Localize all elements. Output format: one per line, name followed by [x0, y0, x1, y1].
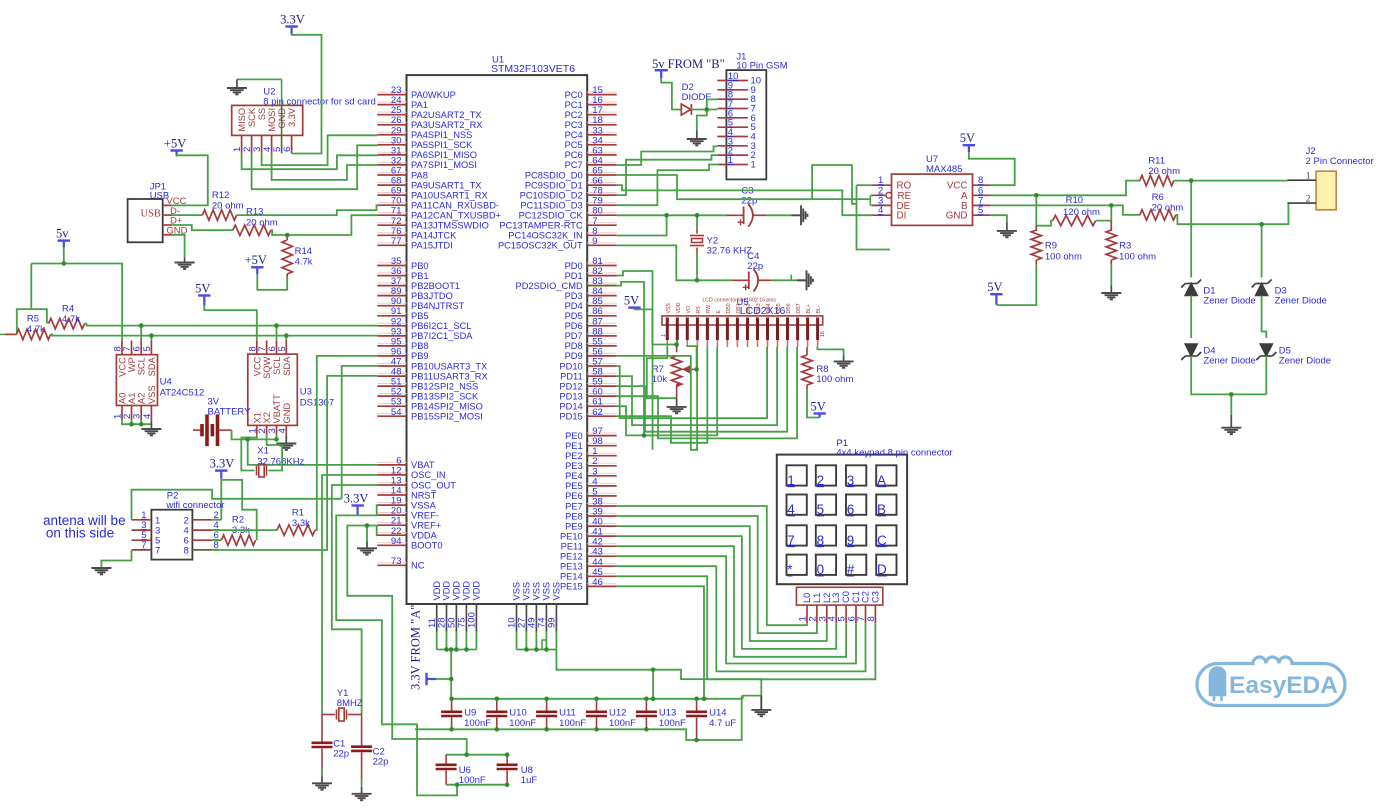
resistor R7 wiper arrow — [684, 366, 697, 373]
svg-text:PB10USART3_TX: PB10USART3_TX — [411, 361, 487, 371]
U5 pin 13 stub thin — [787, 340, 789, 347]
svg-text:VSS: VSS — [666, 303, 672, 314]
svg-text:PB6I2C1_SCL: PB6I2C1_SCL — [411, 321, 471, 331]
capacitor U14 — [686, 712, 707, 716]
J1 pin 2 stub — [717, 154, 748, 156]
resistor R14 top lead — [286, 235, 288, 240]
U4 pin 2 (A1) stub — [131, 406, 133, 421]
power 5V LCD — [628, 308, 640, 310]
svg-text:PA5SPI1_SCK: PA5SPI1_SCK — [411, 140, 473, 150]
U1 pin 29 (PA4SPI1_NSS) stub — [377, 134, 406, 136]
wire VREF- pin20 3.3V line to U6/U8 bottom rail — [336, 515, 457, 795]
wire U3 SCL to SCL line — [276, 326, 278, 341]
wire U2 GND to ground — [237, 78, 282, 80]
U7 pin 3 (DE) stub — [872, 204, 892, 206]
wire U6/U8 bottom rail — [446, 784, 507, 786]
U1 pin 79 (PC11SDIO_D3) stub — [587, 204, 617, 206]
svg-text:PD5: PD5 — [565, 311, 583, 321]
U1 pin 94 (BOOT0) stub — [377, 544, 406, 546]
capacitor C3 right lead — [753, 214, 767, 216]
svg-text:4.7 uF: 4.7 uF — [709, 718, 736, 729]
wire U6/U8 top rail — [446, 754, 507, 756]
wire R9 bottom to 5V — [996, 265, 1036, 306]
svg-text:PE7: PE7 — [565, 501, 583, 511]
wire to U7 RO — [857, 184, 872, 186]
diode D2 symbol — [681, 104, 691, 115]
wire VREF+ line to ground — [366, 526, 368, 542]
ground R3 bars — [1101, 293, 1121, 299]
svg-text:100nF: 100nF — [459, 775, 486, 786]
svg-text:PE11: PE11 — [561, 542, 583, 552]
capacitor C1 leads — [321, 715, 323, 743]
keypad P1 key A — [876, 465, 896, 485]
ground U2 bars — [227, 88, 247, 94]
J1 pin 4 stub — [717, 136, 748, 138]
connector J1 body — [726, 70, 766, 179]
svg-text:PD13: PD13 — [559, 391, 582, 401]
JP1 pin GND stub — [163, 234, 172, 236]
U5 pin 6 stub thin — [716, 340, 718, 347]
wire D5 to bottom rail — [1265, 356, 1267, 394]
wire 3.3V to U2 pin6 — [292, 34, 322, 154]
capacitor U13 bottom lead — [645, 718, 647, 730]
svg-text:VDD: VDD — [462, 581, 472, 601]
svg-text:SCL: SCL — [137, 357, 147, 375]
wire R1 to PB9 pin96 — [315, 356, 377, 530]
wire C3 row down to Y2 — [696, 215, 698, 228]
U1 pin 76 (PA14JTCK) stub — [377, 234, 406, 236]
svg-text:DB2: DB2 — [746, 303, 752, 313]
U1 pin 97 (PE0) stub — [587, 435, 617, 437]
U7 pin 1 (RO) stub — [872, 184, 892, 186]
U1 pin 5 (PE6) stub — [587, 495, 617, 497]
keypad P1 key # — [846, 555, 866, 575]
ground R7 stem — [676, 398, 678, 407]
capacitor U8 — [497, 765, 518, 769]
svg-text:PC13TAMPER-RTC: PC13TAMPER-RTC — [499, 221, 583, 231]
U1 pin 18 (PC3) stub — [587, 124, 617, 126]
svg-text:6: 6 — [282, 147, 293, 152]
wire junction dots — [62, 107, 1264, 787]
U7 pin 2 (RE) stub — [872, 194, 892, 196]
U1 pin 96 (PB9) stub — [377, 355, 406, 357]
U1 pin 70 (PA11CAN_RXUSBD-) stub — [377, 204, 406, 206]
svg-text:7: 7 — [787, 533, 795, 548]
wire U4 A1 join — [131, 420, 133, 424]
U3 pin 6 (SCL) stub — [276, 340, 278, 354]
U1 VSS pin 27 stub — [525, 604, 527, 632]
svg-text:PD15: PD15 — [559, 412, 582, 422]
wire VSS pin drop — [525, 632, 527, 650]
P2 pin 2 stub — [192, 519, 211, 521]
svg-text:A0: A0 — [118, 393, 128, 404]
wire 3.3V FROM A to VDD net — [436, 678, 451, 680]
svg-text:PC5: PC5 — [565, 140, 583, 150]
wire U2 MISO to PA6 pin31 — [242, 153, 378, 169]
power 5V R8 — [813, 414, 825, 418]
U1 pin 93 (PB7I2C1_SDA) stub — [377, 335, 406, 337]
wire PC8 pin65 to U7 RE/DE node — [617, 175, 871, 199]
U5 pin 6 (E) stub — [716, 318, 719, 341]
U5 pin 13 (DB6) stub — [786, 318, 789, 341]
wire VDD pin drop — [475, 632, 477, 650]
wire U2 MOSI to PA7 pin32 — [272, 153, 378, 180]
U1 pin 19 (VSSA) stub — [377, 504, 406, 506]
U1 VDD pin 100 stub — [475, 604, 477, 632]
wire U2 SCK to PA5 pin30 — [252, 145, 378, 189]
ground zener stem — [1230, 415, 1232, 428]
svg-text:100: 100 — [467, 612, 478, 628]
diode D3 (zener) — [1252, 280, 1272, 296]
svg-text:PE3: PE3 — [565, 461, 583, 471]
wire VDDA pin22 bracket to VREF+ — [376, 526, 379, 536]
U1 pin 47 (PB10USART3_TX) stub — [377, 365, 406, 367]
J1 pin 6 stub — [717, 117, 748, 119]
svg-text:+5V: +5V — [245, 253, 267, 267]
P1 connector pin 7 stub — [865, 605, 867, 623]
svg-text:U11: U11 — [559, 708, 576, 719]
svg-text:PC6: PC6 — [565, 150, 583, 160]
U5 pin 11 (DB4) stub — [766, 318, 769, 341]
svg-text:PE15: PE15 — [560, 582, 583, 592]
wire VDD bus down to cap bus — [450, 650, 452, 699]
svg-text:VSSA: VSSA — [411, 500, 437, 510]
svg-text:VDD: VDD — [676, 302, 682, 313]
resistor R4 — [49, 318, 85, 328]
wire 5v to U4 VCC pin8 — [64, 264, 122, 341]
wire staircase above U7 — [812, 165, 890, 250]
wire 3.3V rail to P2 pin2 — [220, 479, 222, 520]
svg-text:PC10SDIO_D2: PC10SDIO_D2 — [520, 190, 583, 200]
svg-text:C: C — [877, 533, 887, 548]
U1 pin 30 (PA5SPI1_SCK) stub — [377, 144, 406, 146]
J1 pin 5 stub — [717, 126, 748, 128]
resistor R8 top lead — [806, 347, 808, 355]
svg-text:GND: GND — [282, 403, 292, 424]
U5 pin 12 (DB5) stub — [776, 318, 779, 341]
svg-text:16: 16 — [820, 331, 826, 337]
wire OSC_OUT pin13 to Y1 right — [332, 485, 378, 715]
svg-text:1: 1 — [787, 473, 795, 488]
power 3.3V top-left — [285, 27, 297, 34]
U1 pin 17 (PC2) stub — [587, 114, 617, 116]
svg-text:SCL: SCL — [272, 357, 282, 375]
capacitor C4 right lead — [758, 279, 772, 281]
ground D2 stem — [696, 131, 698, 140]
ground R3 stem — [1110, 285, 1112, 293]
svg-text:22p: 22p — [373, 757, 389, 768]
resistor R5 — [17, 329, 51, 339]
svg-text:100nF: 100nF — [659, 718, 686, 729]
U7 pin 2 inversion bubble — [886, 192, 892, 198]
svg-text:PB0: PB0 — [411, 261, 429, 271]
J1 pin 8 stub — [717, 98, 748, 100]
wire RO riser — [856, 185, 858, 204]
svg-text:PD0: PD0 — [565, 261, 583, 271]
svg-text:PC9SDIO_D1: PC9SDIO_D1 — [525, 180, 583, 190]
svg-text:5V: 5V — [987, 280, 1002, 294]
svg-text:A1: A1 — [127, 393, 137, 404]
svg-text:100 ohm: 100 ohm — [1119, 252, 1156, 263]
svg-text:L0: L0 — [802, 593, 812, 603]
keypad P1 key 4 — [787, 495, 807, 515]
svg-text:3.3V: 3.3V — [210, 456, 235, 470]
U1 pin 58 (PD11) stub — [587, 375, 617, 377]
svg-text:4: 4 — [787, 502, 795, 517]
wire JP1 D+ to R13 — [172, 225, 233, 230]
capacitor U6 top lead — [445, 755, 447, 765]
resistor R2 — [222, 535, 256, 545]
svg-text:R1: R1 — [292, 508, 304, 519]
svg-text:22p: 22p — [333, 749, 349, 760]
U5 pin 2 (VDD) stub — [676, 318, 679, 341]
wire 5v to R5 — [17, 264, 32, 335]
U3 pin 5 (SDA) stub — [285, 340, 287, 354]
U1 pin 69 (PA10USART1_RX) stub — [377, 194, 406, 196]
keypad P1 key * — [787, 555, 807, 575]
svg-text:VDDA: VDDA — [411, 531, 438, 541]
U1 pin 35 (PB0) stub — [377, 265, 406, 267]
ground U14 bars — [751, 710, 771, 716]
mcu U1 body — [407, 75, 588, 604]
U1 pin 26 (PA3USART2_RX) stub — [377, 124, 406, 126]
U2 pin 4 (MOSI) stub — [271, 135, 273, 153]
wire P2 pin1 to PB10 riser — [132, 490, 342, 520]
svg-text:U4: U4 — [160, 377, 172, 388]
capacitor U11 — [536, 712, 557, 716]
svg-text:5: 5 — [277, 346, 288, 351]
svg-text:32.76 KHZ: 32.76 KHZ — [707, 246, 753, 257]
U1 pin 38 (PE7) stub — [587, 505, 617, 507]
U4 pin 5 (SDA) stub — [150, 340, 152, 354]
wire Y2 down to C4 row — [696, 253, 698, 281]
svg-text:PD12: PD12 — [559, 381, 582, 391]
wire VSS pin drop — [555, 632, 557, 650]
U2 pin 2 (SCK) stub — [251, 135, 253, 153]
keypad P1 key 0 — [816, 555, 836, 575]
svg-text:100 ohm: 100 ohm — [816, 374, 853, 385]
diode D4 (zener) — [1181, 344, 1201, 360]
wire U7 B to R6 — [991, 205, 1141, 215]
svg-text:C3: C3 — [870, 591, 880, 603]
svg-text:DB5: DB5 — [776, 303, 782, 313]
svg-text:U9: U9 — [464, 708, 476, 719]
U5 pin 12 stub thin — [777, 340, 779, 347]
wire zener rail to ground — [1230, 394, 1232, 415]
U1 pin 44 (PE13) stub — [587, 565, 617, 567]
svg-text:PC2: PC2 — [565, 110, 583, 120]
svg-text:VDD: VDD — [432, 581, 442, 601]
P1 connector pin 5 stub — [845, 605, 847, 623]
wire D3 to D5 — [1262, 296, 1267, 339]
U1 pin 60 (PD13) stub — [587, 395, 617, 397]
wire R6 node down to D3 — [1261, 224, 1263, 277]
U1 pin 59 (PD12) stub — [587, 385, 617, 387]
svg-text:R2: R2 — [232, 515, 244, 526]
U5 pin 4 stub thin — [696, 340, 698, 347]
power 5v FROM B symbol — [655, 70, 668, 78]
wire U3 X1 to crystal left — [241, 435, 256, 471]
U5 pin 14 stub thin — [797, 340, 799, 347]
P1 connector pin 2 stub — [816, 605, 818, 623]
resistor R6 — [1140, 210, 1176, 220]
ground C2 bars — [352, 794, 372, 800]
svg-text:PA13JTMSSWDIO: PA13JTMSSWDIO — [411, 221, 489, 231]
svg-text:PA3USART2_RX: PA3USART2_RX — [411, 120, 482, 130]
U5 pin 1 (VSS) stub — [666, 318, 669, 341]
wire U4 SDA to SDA line — [150, 336, 152, 341]
resistor R3 top lead — [1110, 221, 1112, 231]
J1 pin 3 stub — [717, 145, 748, 147]
wire cap top bus step to ground — [743, 696, 762, 699]
power 3.3V VREF — [351, 506, 363, 515]
U4 pin 1 (A0) stub — [121, 406, 123, 421]
svg-text:PC11SDIO_D3: PC11SDIO_D3 — [520, 201, 582, 211]
ground U7 bars — [997, 231, 1017, 237]
crystal Y1 right lead — [348, 714, 362, 716]
power 5V U7 — [963, 145, 975, 152]
svg-text:100nF: 100nF — [464, 718, 491, 729]
resistor R9 bottom lead — [1035, 260, 1037, 265]
svg-text:PD2SDIO_CMD: PD2SDIO_CMD — [516, 281, 583, 291]
svg-text:5: 5 — [142, 346, 153, 351]
svg-text:USB: USB — [141, 209, 161, 220]
svg-text:R9: R9 — [1045, 241, 1057, 252]
U1 pin 88 (PD7) stub — [587, 335, 617, 337]
svg-text:3.3V FROM "A": 3.3V FROM "A" — [409, 605, 423, 690]
svg-text:62: 62 — [592, 407, 603, 418]
svg-text:PD6: PD6 — [565, 321, 583, 331]
ground U14 stem — [760, 696, 762, 710]
wire R8 to 5V — [807, 389, 820, 417]
svg-text:A: A — [877, 473, 886, 488]
svg-text:PA11CAN_RXUSBD-: PA11CAN_RXUSBD- — [411, 201, 499, 211]
J1 pin 10 stub — [717, 80, 748, 82]
svg-text:PA8: PA8 — [411, 170, 428, 180]
wire +5V to JP1 VCC — [172, 155, 208, 205]
wire JP1 D- to R12 — [172, 214, 203, 216]
wire VSS pin 74 jog — [542, 640, 546, 650]
U1 pin 20 (VREF-) stub — [377, 514, 406, 516]
U1 pin 55 (PD8) stub — [587, 345, 617, 347]
wire C2 to ground — [361, 779, 363, 787]
ground JP1 stem — [184, 257, 186, 262]
wire PE pin to keypad connector pin 6 — [617, 556, 856, 663]
svg-text:3: 3 — [847, 473, 855, 488]
svg-text:20 ohm: 20 ohm — [212, 201, 244, 212]
svg-text:MISO: MISO — [237, 108, 247, 132]
U5 pin 7 (DB0) stub — [726, 318, 729, 341]
U1 pin 32 (PA7SPI1_MOSI) stub — [377, 164, 406, 166]
svg-text:73: 73 — [391, 556, 402, 567]
ground C3 rotated — [792, 205, 808, 225]
svg-text:PB8: PB8 — [411, 341, 429, 351]
svg-text:PD14: PD14 — [559, 402, 582, 412]
ic U4 body — [116, 355, 157, 406]
U1 pin 31 (PA6SPI1_MISO) stub — [377, 154, 406, 156]
svg-text:3.3V: 3.3V — [287, 107, 297, 127]
resistor R3 — [1106, 230, 1116, 260]
battery BT1 symbol — [193, 414, 232, 446]
wire 3.3V rail to R2 — [221, 480, 256, 540]
ground U4 bars — [141, 429, 161, 435]
U1 pin 7 (PC13TAMPER-RTC) stub — [587, 224, 617, 226]
U4 pin 4 (VSS) stub — [150, 406, 152, 421]
J2 pin 2 line — [1287, 202, 1316, 204]
svg-text:VDD: VDD — [472, 581, 482, 601]
capacitor U6 — [436, 765, 457, 769]
crystal Y1 symbol — [337, 708, 347, 721]
wire PD12 pin59 to U5 DB6 — [617, 347, 788, 432]
U2 GND pin wire inside box — [281, 79, 283, 105]
logo EasyEDA outline — [1197, 657, 1345, 706]
connector J2 body — [1316, 171, 1336, 210]
wire VDD bus — [437, 649, 477, 651]
resistor R7 bottom dot — [676, 383, 680, 387]
wire VREF+ pin21 line to U6/U8 top rail — [347, 526, 466, 755]
svg-text:PD3: PD3 — [565, 291, 583, 301]
svg-text:120 ohm: 120 ohm — [1063, 207, 1100, 218]
U7 RE DE bracket — [869, 195, 871, 205]
svg-text:Zener Diode: Zener Diode — [1279, 356, 1331, 367]
wire D4 to bottom rail — [1191, 356, 1266, 394]
svg-text:PB2BOOT1: PB2BOOT1 — [411, 281, 460, 291]
wire P2 pin7 to ground — [101, 550, 131, 568]
U1 pin 53 (PB14SPI2_MISO) stub — [377, 405, 406, 407]
U1 pin 3 (PE4) stub — [587, 475, 617, 477]
U1 pin 81 (PD0) stub — [587, 265, 617, 267]
svg-text:U14: U14 — [709, 708, 726, 719]
U3 pin 8 (VCC) stub — [256, 340, 258, 354]
U5 pin 3 (VO) stub — [686, 318, 689, 341]
svg-text:Zener Diode: Zener Diode — [1275, 296, 1327, 307]
wire P2 pin2 to 3.3V rail — [212, 519, 222, 521]
wire U2 SS to PA4 pin29 — [262, 135, 378, 165]
P2 pin 6 stub — [192, 539, 211, 541]
wire PE pin to keypad connector pin 2 — [617, 516, 817, 633]
svg-text:PE0: PE0 — [565, 431, 583, 441]
svg-text:VSS: VSS — [522, 582, 532, 601]
ground VREF stem — [366, 542, 368, 549]
svg-text:PC7: PC7 — [565, 160, 583, 170]
ground C2 stem — [361, 787, 363, 794]
svg-text:7: 7 — [155, 545, 160, 556]
wire 5v to R4 — [31, 309, 47, 324]
svg-text:NRST: NRST — [411, 490, 437, 500]
svg-text:VCC: VCC — [252, 356, 262, 376]
connector P2 body — [151, 510, 192, 560]
wire PD11 pin58 to U5 DB5 — [617, 347, 777, 425]
wire bracket to DE — [870, 204, 872, 206]
U1 pin 22 (VDDA) stub — [377, 534, 406, 536]
svg-text:7: 7 — [141, 540, 146, 551]
U1 pin 43 (PE12) stub — [587, 555, 617, 557]
U1 pin 34 (PC5) stub — [587, 144, 617, 146]
diode D1 (zener) — [1181, 280, 1201, 296]
svg-text:1: 1 — [751, 160, 756, 171]
U1 VSS pin 74 stub — [545, 604, 547, 632]
U1 pin 25 (PA2USART2_TX) stub — [377, 114, 406, 116]
svg-text:PA0WKUP: PA0WKUP — [411, 90, 456, 100]
svg-text:DB0: DB0 — [726, 303, 732, 313]
P2 pin 3 stub — [132, 529, 152, 531]
U1 pin 1 (PE2) stub — [587, 455, 617, 457]
svg-text:PD11: PD11 — [560, 371, 583, 381]
svg-text:PE5: PE5 — [565, 481, 583, 491]
svg-text:MAX485: MAX485 — [926, 164, 962, 175]
svg-text:U12: U12 — [609, 708, 626, 719]
keypad P1 key 5 — [816, 495, 836, 515]
